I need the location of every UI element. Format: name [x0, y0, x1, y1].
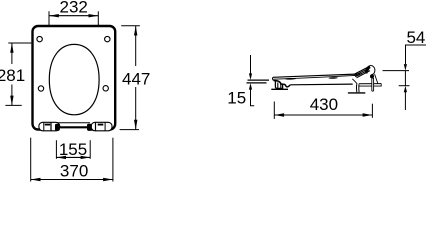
dim 281 line upper — [11, 43, 13, 64]
hinge bracket left dark bar — [45, 124, 50, 126]
front ground line — [271, 88, 288, 90]
svg-text:370: 370 — [60, 162, 88, 181]
dim 155 arrow left — [56, 156, 66, 159]
hinge bracket right — [91, 122, 112, 131]
hinge head dark edge — [366, 67, 370, 74]
dim 232 arrow left — [49, 14, 59, 17]
hinge pin — [372, 78, 374, 91]
front bumper inner line 1 — [277, 83, 279, 89]
dim 281 arrow up — [10, 43, 13, 53]
side view: front edge reference line upper — [248, 79, 270, 81]
side profile second top line — [273, 75, 359, 79]
side profile bottom edge — [290, 83, 353, 86]
seat top view outline — [33, 26, 116, 130]
dim 370 ext line left — [30, 138, 32, 182]
dim 430 line — [274, 114, 372, 116]
hinge arm stripe 2 — [354, 69, 368, 76]
hinge bracket left black cap — [55, 124, 60, 131]
side profile dark lens 1 — [285, 78, 296, 80]
svg-text:54: 54 — [406, 28, 425, 47]
dim 232 arrow right — [89, 14, 99, 17]
mounting plate top edge — [359, 83, 382, 85]
rear leg line 1 — [355, 84, 357, 92]
dim 232 ext line right — [97, 11, 99, 25]
dim 370 line — [31, 179, 113, 181]
dim 155 line — [56, 156, 90, 158]
dim 281 arrow down — [10, 96, 13, 106]
hinge arm stripe 3 — [355, 70, 369, 77]
svg-text:15: 15 — [227, 88, 246, 107]
dim 54 arrow down — [404, 64, 407, 71]
dim 447 line upper — [135, 26, 137, 66]
dim 155 tick left — [55, 140, 57, 159]
seat opening oval — [49, 44, 99, 114]
dim 430 ext line left — [273, 102, 275, 119]
svg-text:155: 155 — [59, 140, 87, 159]
dim 447 line lower — [135, 87, 137, 130]
hinge bracket left — [39, 122, 60, 131]
dim 54 arrow up — [404, 86, 407, 93]
dim 281 ext line top — [8, 42, 31, 44]
mounting plate bottom — [359, 84, 381, 87]
dim 15 stem lower — [251, 90, 255, 106]
svg-text:281: 281 — [0, 66, 25, 85]
hinge arm stripe 4 — [357, 71, 371, 78]
dim 54 lower stem — [404, 91, 406, 110]
dim 54 lower ext line — [399, 85, 410, 87]
side profile dark lens 2 — [329, 77, 338, 79]
hole top-right — [105, 36, 110, 41]
hinge arm stripe 1 — [354, 68, 368, 75]
svg-text:430: 430 — [310, 95, 338, 114]
dim 54 mid segment — [404, 71, 406, 86]
front bumper leg — [275, 82, 282, 89]
side profile front tip — [273, 77, 274, 80]
hinge bracket left divider — [50, 122, 52, 131]
dim 15 arrow down — [249, 73, 252, 80]
dim 232 ext line left — [48, 11, 50, 25]
svg-text:232: 232 — [60, 0, 88, 17]
dim 370 ext line right — [112, 138, 114, 182]
hinge head outline — [366, 66, 375, 75]
dim 155 tick right — [89, 140, 91, 159]
dim 430 arrow right — [363, 113, 373, 116]
side view: front edge reference line lower — [247, 82, 267, 84]
dim 281 line lower — [11, 85, 13, 106]
side profile under-hook — [284, 84, 291, 87]
hinge rear edge to plate — [375, 74, 378, 83]
dim 54 upper ext line — [383, 70, 410, 72]
dim 232 line — [49, 15, 98, 17]
dim 281 ext line bottom — [5, 104, 21, 106]
hinge bracket left inner line — [43, 123, 45, 131]
hinge bar white backing — [59, 124, 88, 132]
hole top-left — [37, 36, 42, 41]
dim 447 arrow down — [134, 120, 137, 130]
rear leg line 2 — [358, 84, 360, 92]
dim 370 arrow left — [31, 178, 41, 181]
hole mid-right — [103, 86, 108, 91]
hinge bar top line — [57, 122, 90, 124]
hinge bracket right inner line — [104, 123, 106, 131]
hinge bracket right divider — [95, 122, 97, 131]
dim 430 arrow left — [274, 113, 284, 116]
dim 447 ext line bottom — [120, 129, 139, 131]
hinge bracket right dark bar — [98, 124, 104, 126]
hinge bracket right black cap — [87, 124, 92, 131]
dim 447 ext line top — [121, 25, 140, 27]
svg-text:447: 447 — [122, 69, 150, 88]
front bumper inner line 2 — [280, 84, 282, 88]
hole mid-left — [38, 86, 43, 91]
dim 447 arrow up — [134, 26, 137, 36]
rear ground line — [348, 92, 365, 94]
dim 430 ext line right — [371, 104, 373, 118]
hinge arm lower curve — [352, 79, 357, 85]
dim 370 arrow right — [103, 178, 113, 181]
dim 15 arrow up — [249, 83, 252, 90]
side profile underside front curve — [274, 81, 284, 85]
dim 15 stem upper — [250, 55, 252, 74]
hinge dark hub — [370, 74, 374, 78]
hinge bar bottom thick line — [57, 126, 90, 128]
side profile top edge — [273, 74, 362, 77]
dim 54 bracket — [406, 45, 426, 64]
dim 155 arrow right — [81, 156, 91, 159]
